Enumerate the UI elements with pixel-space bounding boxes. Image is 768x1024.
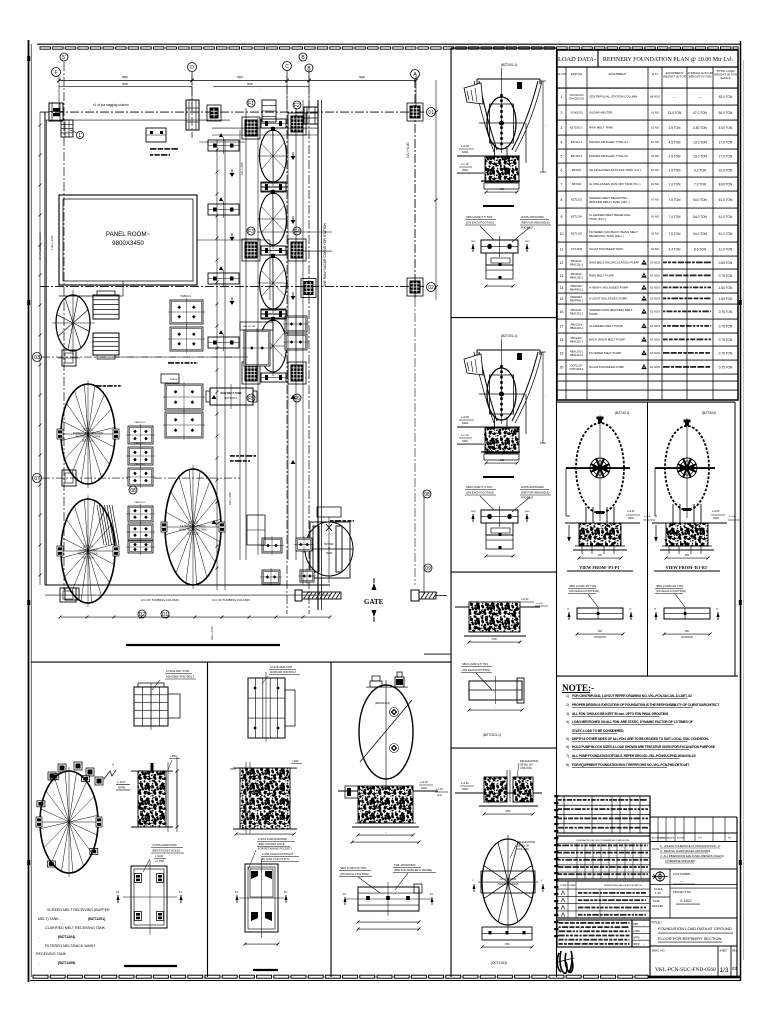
pad single right — [240, 322, 273, 368]
svg-text:1 GAD: 1 GAD — [155, 854, 163, 858]
load data table header row — [557, 66, 738, 68]
svg-text:VIEW FROM-'P1-P1': VIEW FROM-'P1-P1' — [579, 565, 621, 570]
svg-text:GATE: GATE — [364, 598, 384, 606]
svg-text:PAB 10? NN: PAB 10? NN — [243, 325, 256, 328]
notes numbered lines — [566, 694, 719, 768]
vertical dim chains plan center — [216, 140, 218, 590]
panel room rectangle — [59, 195, 197, 296]
tank BZT402 assembly right-bottom of plan — [305, 507, 353, 583]
svg-text:5): 5) — [566, 737, 569, 741]
title block general notes — [650, 844, 737, 869]
svg-text:M20X400 FND BOLT: M20X400 FND BOLT — [270, 670, 297, 674]
melter footing beam texts — [339, 863, 436, 893]
svg-text:47.0 TON: 47.0 TON — [693, 111, 707, 115]
detail pad plan col2 — [248, 665, 300, 742]
svg-text:0.75 TON: 0.75 TON — [719, 324, 733, 328]
svg-text:BZT402: BZT402 — [324, 542, 334, 546]
svg-text:c1 of pur sagging column: c1 of pur sagging column — [93, 103, 129, 107]
dark pad F4 — [288, 239, 306, 261]
bubble 08 — [129, 486, 137, 494]
pedestal base lines BZT401 — [573, 549, 627, 551]
svg-text:03: 03 — [34, 355, 40, 361]
svg-text:WASH RECEIVING TANK: WASH RECEIVING TANK — [179, 529, 207, 532]
svg-text:0.75 TON: 0.75 TON — [719, 310, 733, 314]
station top rails horizontal — [199, 128, 318, 142]
bolt plan leader texts — [465, 485, 551, 512]
svg-text:SBU LOAD=20 TON: SBU LOAD=20 TON — [569, 584, 596, 588]
beam detail BZT1001-1 texts — [461, 662, 492, 690]
svg-text:APPD: APPD — [633, 937, 640, 940]
svg-text:15: 15 — [560, 297, 564, 301]
svg-text:01 NO: 01 NO — [651, 182, 660, 186]
svg-text:LOAD ON EACH FDN=10T: LOAD ON EACH FDN=10T — [262, 852, 294, 856]
svg-text:L+0.00: L+0.00 — [712, 510, 720, 513]
svg-text:8.60 TON: 8.60 TON — [719, 182, 733, 186]
leader arrows X marks near tanks — [230, 152, 296, 305]
svg-text:PBAP404-1: PBAP404-1 — [570, 298, 584, 302]
svg-text:08 NOS: 08 NOS — [650, 95, 660, 99]
svg-text:9.2 TON: 9.2 TON — [694, 168, 707, 172]
svg-text:1.6 TON: 1.6 TON — [669, 182, 682, 186]
svg-text:2 NOS-1000X1000X500: 2 NOS-1000X1000X500 — [258, 837, 287, 841]
svg-text:4 NOS-M20 FOR: 4 NOS-M20 FOR — [270, 665, 292, 669]
gridline A vertical dash-dot — [414, 79, 416, 298]
section OCT1203 labels — [455, 760, 542, 793]
svg-text:(BZT1001-1): (BZT1001-1) — [483, 733, 501, 737]
bolt plan lower rect — [485, 523, 515, 558]
svg-text:+300: +300 — [170, 754, 177, 758]
gridline 5-prime vertical dash-dot — [63, 62, 65, 590]
svg-text:LVL=+0.00: LVL=+0.00 — [406, 142, 410, 158]
svg-text:900: 900 — [500, 188, 505, 191]
column pad A-01 — [407, 103, 423, 121]
svg-text:L+0.00: L+0.00 — [420, 781, 428, 784]
svg-text:FLOOR FOR REFINERY SECTION: FLOOR FOR REFINERY SECTION — [658, 936, 722, 941]
svg-text:7: 7 — [561, 182, 563, 186]
svg-text:(BZT1205): (BZT1205) — [58, 961, 76, 965]
plan top dimension line — [57, 76, 418, 112]
svg-text:SBU LOAD=20 TON: SBU LOAD=20 TON — [340, 866, 366, 870]
striped unit BU-1 — [93, 291, 119, 319]
bottom bubbles D2 D1 — [138, 610, 146, 618]
revision history table — [557, 796, 650, 833]
svg-text:5800: 5800 — [359, 75, 365, 79]
svg-text:(BZT1204): (BZT1204) — [58, 935, 76, 939]
svg-text:09: 09 — [425, 566, 431, 572]
bubble 09 right bottom — [424, 564, 432, 572]
tanks column of 4 mingler ellipses — [258, 119, 288, 186]
divider bottom-left col1|col2 — [207, 662, 209, 977]
raw melt tank pad BZT1001-1 — [206, 384, 257, 409]
title block frame — [650, 796, 737, 977]
big tank BZT1201 plan — [57, 380, 119, 488]
svg-text:900: 900 — [598, 630, 603, 633]
pedestal concrete BZT404 — [665, 523, 708, 546]
tank plan BZT1204 (bottom-left) — [36, 767, 102, 877]
svg-text:4): 4) — [566, 720, 569, 724]
svg-text:BZT1204: BZT1204 — [83, 546, 94, 549]
svg-text:BL TANK TOP C/T B.T.L: BL TANK TOP C/T B.T.L — [262, 857, 290, 861]
svg-text:DATE: DATE — [653, 899, 660, 903]
scale bar line — [483, 205, 514, 207]
drawing number cell — [652, 946, 737, 977]
svg-text:F2: F2 — [294, 103, 300, 109]
svg-text:SCUM TRANSFER PUMP: SCUM TRANSFER PUMP — [589, 365, 624, 369]
projection symbol — [650, 869, 737, 918]
svg-text:(BZT404): (BZT404) — [702, 411, 716, 415]
divider bottom-left col2|col3 — [330, 662, 332, 977]
svg-text:VKL-PCN-SUC-FND-0568: VKL-PCN-SUC-FND-0568 — [655, 967, 716, 973]
svg-text:SBU LOAD=20 TON: SBU LOAD=20 TON — [656, 584, 683, 588]
svg-text:01 NO: 01 NO — [651, 154, 660, 158]
svg-text:PBA1201-1: PBA1201-1 — [134, 463, 146, 466]
svg-text:3.50 TON: 3.50 TON — [693, 126, 707, 130]
bolt plan rectangle — [481, 506, 518, 527]
x-marks small triangles row — [212, 395, 296, 524]
svg-text:5800: 5800 — [237, 75, 243, 79]
svg-text:4 NOS-1000X1000: 4 NOS-1000X1000 — [152, 843, 177, 847]
section OCT1203 base — [479, 805, 538, 807]
melter top nozzles — [366, 672, 408, 687]
svg-text:8: 8 — [561, 198, 563, 202]
svg-text:CUSTOMER :-: CUSTOMER :- — [673, 872, 693, 876]
svg-text:SHEET: SHEET — [720, 950, 729, 953]
svg-text:DATE: DATE — [669, 837, 675, 840]
load data table rows — [557, 104, 738, 106]
svg-text:900: 900 — [500, 459, 505, 462]
svg-text:ALL PUMP FOUNDATION DETAILS, R: ALL PUMP FOUNDATION DETAILS, REFER DRG.N… — [572, 754, 696, 758]
svg-text:1/3: 1/3 — [720, 967, 729, 974]
svg-text:LVL=+650: LVL=+650 — [240, 162, 244, 175]
pump foundation base — [481, 180, 520, 182]
svg-text:AH MOLASSES RUN OFF TANK (1m ): AH MOLASSES RUN OFF TANK (1m ) — [589, 168, 641, 172]
pump body ellipse — [479, 68, 525, 153]
scale bar col1 — [124, 965, 177, 967]
svg-text:OTHERWISE SPECIFIED.: OTHERWISE SPECIFIED. — [665, 859, 696, 863]
svg-text:M24X500 FND BOLT: M24X500 FND BOLT — [166, 675, 194, 679]
svg-text:APPD: APPD — [633, 943, 640, 946]
svg-text:LVL=+0.00: LVL=+0.00 — [210, 626, 214, 640]
gridline 03 bubble — [33, 353, 42, 362]
pads cluster mid-right — [161, 374, 205, 440]
title text block — [650, 918, 737, 946]
svg-text:1 ±0.0: 1 ±0.0 — [117, 780, 126, 784]
pump body ellipse — [479, 339, 525, 424]
svg-text:L+0.00: L+0.00 — [461, 415, 470, 419]
svg-text:P: P — [655, 607, 657, 611]
svg-text:+300: +300 — [292, 759, 299, 763]
svg-text:03: 03 — [732, 966, 737, 971]
svg-text:HOLD PUMP BLOCK SIZES & LOAD S: HOLD PUMP BLOCK SIZES & LOAD SHOWN ARE T… — [572, 745, 716, 749]
svg-text:A HEAVY MOLASSES PUMP: A HEAVY MOLASSES PUMP — [589, 286, 628, 290]
svg-text:FOUNDATION LOAD DATA AT GR: FOUNDATION LOAD DATA AT GROUND — [658, 926, 732, 931]
svg-text:60.0 TON: 60.0 TON — [719, 111, 733, 115]
svg-text:PBA1201-1: PBA1201-1 — [134, 442, 146, 445]
pads right cluster x290 — [283, 314, 309, 352]
svg-text:10.9 TON: 10.9 TON — [719, 168, 733, 172]
svg-text:SCREEN MELT RECEIVING: SCREEN MELT RECEIVING — [73, 432, 104, 435]
dark pad F5 — [242, 362, 260, 384]
svg-text:L-1.70: L-1.70 — [461, 433, 469, 437]
detail section col2 concrete — [230, 759, 302, 771]
big tank BZT1205 plan — [161, 465, 225, 589]
svg-text:NFRL: NFRL — [421, 787, 428, 790]
svg-text:R.R.: R.R. — [698, 838, 702, 840]
disclaimer text block — [557, 920, 650, 947]
svg-text:NFRL: NFRL — [437, 795, 443, 797]
svg-text:TWL-20X20X600: TWL-20X20X600 — [394, 863, 416, 867]
svg-text:L+0.00: L+0.00 — [461, 144, 470, 148]
border top dashed strip — [40, 47, 51, 49]
beam pads left of tanks — [208, 133, 239, 154]
svg-text:(BUFFER MELT) TANK: (BUFFER MELT) TANK — [76, 436, 101, 439]
svg-text:02 NOS: 02 NOS — [650, 324, 660, 328]
svg-text:F1: F1 — [248, 101, 254, 107]
top dim tick labels — [89, 75, 365, 111]
svg-text:01 NO: 01 NO — [651, 232, 660, 236]
svg-text:FOR CENTRIFUGAL LAYOUT REFER D: FOR CENTRIFUGAL LAYOUT REFER DRAWING NO.… — [572, 694, 692, 698]
svg-text:L-1.70: L-1.70 — [461, 162, 469, 166]
svg-text:5800: 5800 — [122, 75, 128, 79]
divider above notes — [557, 675, 739, 677]
svg-text:NFRL: NFRL — [713, 517, 720, 520]
detail bolt plan col2 — [235, 837, 299, 946]
pump level labels — [457, 82, 526, 173]
dark pad F3 — [242, 239, 260, 261]
svg-text:02 NOS: 02 NOS — [650, 297, 660, 301]
svg-text:02 NOS: 02 NOS — [650, 286, 660, 290]
svg-text:+0.75M: +0.75M — [155, 859, 164, 863]
svg-text:TANK: TANK — [326, 551, 333, 555]
svg-text:53.0 TON: 53.0 TON — [719, 95, 733, 99]
svg-text:CLARIFIED MELT: CLARIFIED MELT — [78, 549, 98, 552]
svg-text:PBAP401-1: PBAP401-1 — [570, 287, 584, 291]
svg-text:MELT) TANK -: MELT) TANK - — [38, 917, 62, 921]
scale bar line — [483, 476, 514, 478]
column pad B-02 — [301, 279, 316, 298]
svg-text:BZT1204: BZT1204 — [571, 215, 582, 219]
panel room leader line — [197, 239, 270, 241]
svg-text::-: :- — [652, 852, 654, 855]
svg-text:3: 3 — [561, 126, 563, 130]
svg-text:MAGMA MINGLER TYPE-A2: MAGMA MINGLER TYPE-A2 — [589, 154, 628, 158]
divider vertical middle|right column — [556, 48, 558, 977]
svg-text:----: ---- — [698, 95, 702, 99]
border frame left line — [28, 40, 30, 982]
svg-text:C1/ OF TURBING COLUMN: C1/ OF TURBING COLUMN — [141, 598, 179, 602]
svg-text:8): 8) — [566, 763, 569, 767]
plan top grid bubbles — [52, 68, 61, 77]
svg-text:BZT1201: BZT1201 — [83, 429, 94, 432]
gridline D lower extension — [191, 72, 193, 138]
svg-text:NFRL: NFRL — [462, 440, 469, 443]
svg-text:01 NO: 01 NO — [651, 126, 660, 130]
svg-text:(BZT1204): (BZT1204) — [82, 556, 94, 559]
svg-text:DRN: DRN — [633, 923, 638, 926]
svg-text:(ON EACH FOOTING): (ON EACH FOOTING) — [656, 589, 686, 593]
pump foundation base — [481, 451, 520, 453]
svg-text:BZT401-1: BZT401-1 — [571, 140, 583, 144]
tank plan OCT1203 labels — [510, 841, 536, 858]
pads PAB101 cluster top — [168, 295, 205, 353]
svg-text:REV: REV — [732, 950, 737, 953]
svg-text:PBA1201-1: PBA1201-1 — [570, 311, 584, 315]
svg-text:CIVIL DRG: CIVIL DRG — [520, 767, 532, 770]
svg-text:MAGMA MINGLER TYPE-A1: MAGMA MINGLER TYPE-A1 — [589, 140, 628, 144]
svg-text:VIEW FROM-'R1-R1': VIEW FROM-'R1-R1' — [666, 565, 709, 570]
svg-text:CL. XX/SCUM: CL. XX/SCUM — [500, 877, 517, 881]
customer cell — [670, 872, 737, 904]
gate symbol — [364, 578, 384, 622]
svg-text:7.0 TON: 7.0 TON — [694, 182, 707, 186]
gate wall hatched bar right — [411, 590, 447, 601]
svg-text:(REF.FOR MISHANDLE): (REF.FOR MISHANDLE) — [521, 491, 550, 495]
svg-text:1:40: 1:40 — [655, 891, 661, 895]
pads between tanks column b — [126, 504, 155, 524]
svg-text:17.5 TON: 17.5 TON — [719, 154, 733, 158]
svg-text:SBU: SBU — [525, 241, 530, 243]
plan bottom line — [45, 584, 330, 586]
svg-text:CIVIL DRG: CIVIL DRG — [517, 848, 529, 851]
svg-text:L VL=+0.00: L VL=+0.00 — [50, 235, 54, 250]
svg-text:RECEIVING TANK: RECEIVING TANK — [78, 553, 98, 556]
column F pad top-left — [49, 103, 63, 121]
svg-text:6: 6 — [561, 168, 563, 172]
svg-text:FILTERED MELT/BACK WASH: FILTERED MELT/BACK WASH — [45, 944, 95, 948]
svg-text:BZT1201: BZT1201 — [571, 198, 582, 202]
svg-text:01 NO: 01 NO — [651, 111, 660, 115]
svg-text:PANEL ROOM~: PANEL ROOM~ — [106, 231, 151, 238]
svg-text:5': 5' — [62, 55, 66, 61]
svg-text:DEPTH & OTHER SIDES OF ALL FDN: DEPTH & OTHER SIDES OF ALL FDN. ARE TO B… — [572, 737, 709, 741]
svg-text:900: 900 — [685, 630, 690, 633]
svg-text:CLARIFIED MELT PUMP: CLARIFIED MELT PUMP — [589, 324, 623, 328]
svg-text:11.0 TON: 11.0 TON — [719, 247, 733, 251]
svg-text:F3: F3 — [248, 229, 254, 235]
svg-text:EQUIPMENT: EQUIPMENT — [609, 72, 627, 76]
detail bolt plan col1 — [116, 843, 184, 935]
svg-text:PBA1202-1: PBA1202-1 — [570, 339, 584, 343]
svg-text:02: 02 — [428, 285, 434, 291]
svg-text:L+0.30: L+0.30 — [521, 598, 529, 601]
svg-text:7.0 TON: 7.0 TON — [669, 215, 682, 219]
svg-text:61.0 TON: 61.0 TON — [719, 232, 733, 236]
svg-text:01 NO: 01 NO — [651, 168, 660, 172]
border frame top line — [37, 43, 741, 45]
svg-text:900: 900 — [685, 554, 690, 557]
svg-text:3): 3) — [566, 712, 569, 716]
load data table empty rows — [557, 380, 738, 382]
svg-text:C1/ OF TURBING COLUMN: C1/ OF TURBING COLUMN — [212, 598, 250, 602]
svg-text:P1: P1 — [116, 890, 120, 894]
svg-text:EQP.NO: EQP.NO — [571, 72, 583, 76]
tank plan OCT1203 — [472, 835, 545, 949]
svg-text:02 NOS: 02 NOS — [650, 310, 660, 314]
tank list text block — [36, 908, 110, 965]
border frame bottom line — [30, 980, 741, 982]
svg-text:SBU: SBU — [471, 241, 476, 243]
pad top-left small cluster x150 — [146, 128, 166, 142]
svg-text:01 NO: 01 NO — [651, 247, 660, 251]
svg-text:5: 5 — [561, 154, 563, 158]
svg-text:P.R.: P.R. — [728, 838, 732, 840]
svg-text:X-1822: X-1822 — [680, 899, 692, 903]
svg-text:PERMISSIBLE ANGULAR DEVIATION: PERMISSIBLE ANGULAR DEVIATION — [604, 884, 642, 887]
svg-text:SCA01001: SCA01001 — [570, 111, 583, 115]
horizontal line at F3 row — [296, 250, 332, 252]
svg-text:900: 900 — [598, 554, 603, 557]
detail section col1 concrete — [116, 754, 180, 790]
svg-text:RAW MELT PUMP: RAW MELT PUMP — [589, 274, 614, 278]
pedestal base lines BZT404 — [660, 549, 714, 551]
svg-text:LVL=+650: LVL=+650 — [228, 492, 232, 505]
svg-text:F: F — [54, 70, 57, 76]
svg-text:01: 01 — [428, 110, 434, 116]
pad at D top — [186, 100, 221, 130]
svg-text:PBA1101-1: PBA1101-1 — [570, 262, 584, 266]
gridline 07 bubble — [33, 474, 42, 483]
svg-text:STATIC LOAD TO BE CONSIDERED.: STATIC LOAD TO BE CONSIDERED. — [572, 729, 624, 733]
svg-text:1700: 1700 — [491, 638, 497, 641]
svg-text:08: 08 — [130, 488, 136, 494]
gridline 01 horizontal dash-dot — [40, 111, 426, 113]
svg-text:54.0 TON: 54.0 TON — [693, 198, 707, 202]
svg-text:NOTE: NOTE — [652, 847, 659, 851]
gridline C vertical dash-dot — [286, 70, 288, 614]
svg-text:WEIGHT IN TON: WEIGHT IN TON — [663, 75, 686, 79]
svg-text:FILTERED MELT PUMP: FILTERED MELT PUMP — [589, 351, 621, 355]
plan bottom dim line — [59, 616, 332, 619]
extra leader texts plan — [96, 89, 354, 522]
left small tank with stripes units — [52, 290, 95, 355]
melter pedestal concrete — [338, 781, 448, 798]
sugar melter ellipse BZA01001 — [359, 680, 413, 786]
svg-text:REFINERY FOUNDATION PLAN @ ±0: REFINERY FOUNDATION PLAN @ ±0.00 Mtr Lvl… — [603, 57, 734, 63]
svg-text:5800: 5800 — [122, 82, 128, 86]
load data table column header row — [557, 87, 738, 89]
svg-text:L+0.00: L+0.00 — [536, 603, 544, 605]
bolt plan rectangle — [481, 236, 518, 257]
small pads bottom of plan — [65, 568, 316, 600]
dark pad F1 — [242, 117, 260, 139]
svg-text:~: ~ — [398, 719, 400, 723]
vertical line near gate right — [423, 490, 425, 594]
svg-text:61.0 TON: 61.0 TON — [719, 198, 733, 202]
svg-text:9800X3450: 9800X3450 — [112, 240, 144, 247]
conveyor station rail lines vertical — [240, 100, 303, 585]
svg-text:NFRL: NFRL — [462, 169, 469, 172]
svg-text:L+0.00: L+0.00 — [627, 510, 635, 513]
svg-text:0.75 TON: 0.75 TON — [719, 338, 733, 342]
svg-text:4: 4 — [561, 140, 563, 144]
bolt plan lower rect — [485, 253, 515, 288]
svg-text:----: ---- — [672, 95, 676, 99]
svg-text:61.0 TON: 61.0 TON — [719, 215, 733, 219]
pump foundation concrete — [484, 428, 519, 454]
svg-text:PROPER DESIGN & EXECUTION OF F: PROPER DESIGN & EXECUTION OF FOUNDATION … — [572, 703, 719, 707]
scale bar col2 — [253, 969, 278, 971]
svg-text:0.75 TON: 0.75 TON — [719, 274, 733, 278]
svg-text:DIMENSION FOR NON TOLERANCED D: DIMENSION FOR NON TOLERANCED DIMENSIONS — [576, 839, 630, 842]
svg-text:LOAD DATA-: LOAD DATA- — [558, 56, 596, 63]
svg-text:16: 16 — [560, 310, 564, 314]
plan scale bar — [126, 644, 280, 646]
svg-text:OCP1203-1: OCP1203-1 — [570, 367, 584, 371]
svg-text:1700: 1700 — [504, 944, 510, 946]
svg-text:A LIGHT MOLASSES PUMP: A LIGHT MOLASSES PUMP — [589, 297, 627, 301]
svg-text:OCT1203: OCT1203 — [571, 247, 583, 251]
svg-text:2NOS-20X20x600: 2NOS-20X20x600 — [521, 215, 544, 219]
